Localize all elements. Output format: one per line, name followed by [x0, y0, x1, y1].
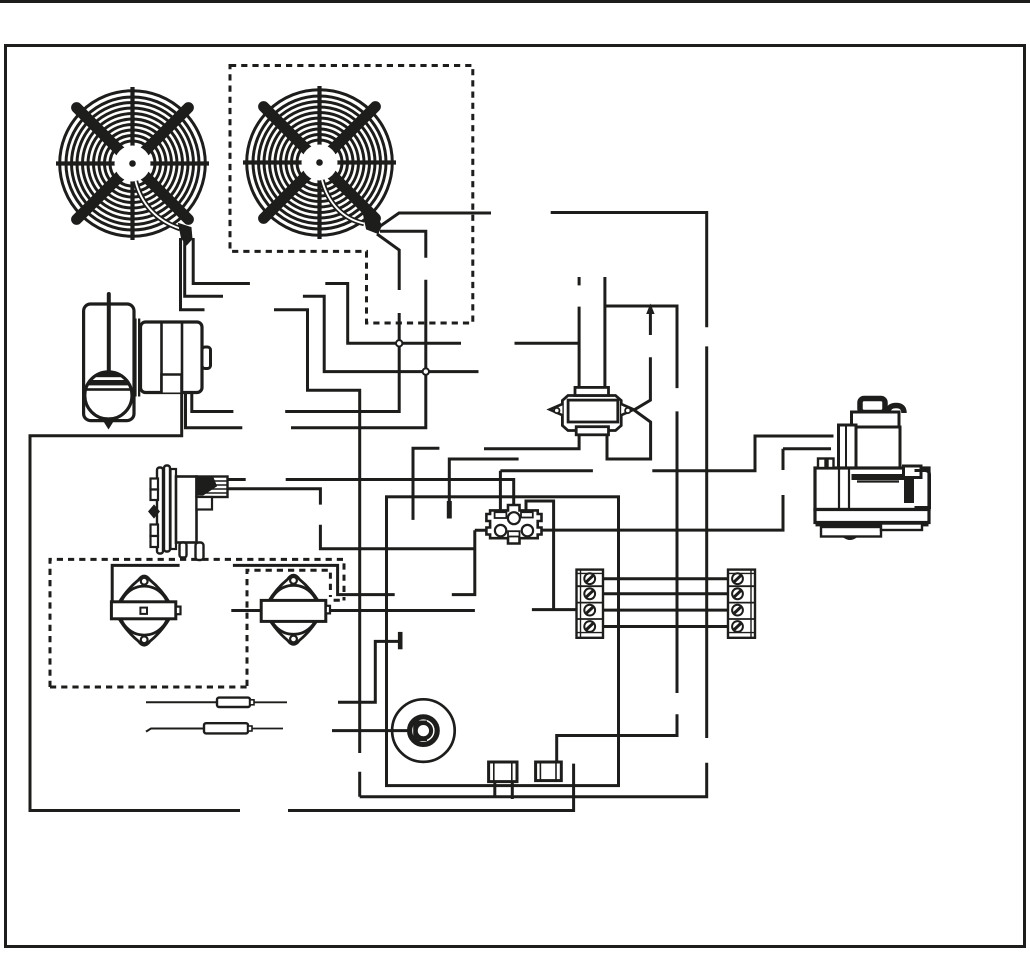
- plug connector (4-pin): [486, 505, 541, 544]
- top rule line: [0, 0, 1030, 3]
- igniter / gas orifice on board: [392, 699, 455, 762]
- board plug P1: [489, 762, 517, 782]
- wire plug connector top-right pin to terminal strip: [526, 501, 577, 610]
- terminal strip TB1 (left): [577, 570, 604, 638]
- wire compressor motor lead to left edge loop: [30, 393, 574, 811]
- fan relay / pressure switch: [149, 466, 228, 561]
- dashed enclosure around condenser fan 2: [230, 66, 473, 324]
- condenser fan motor FM1 (fan guard with blades): [56, 87, 209, 240]
- wire board plug stubs: [495, 782, 513, 799]
- wire igniter feed: [332, 729, 414, 732]
- junction node B: [423, 368, 429, 374]
- wire terminal strip row 3: [603, 609, 728, 612]
- junction node A: [396, 340, 402, 346]
- wire plug connector left pin riser: [112, 530, 490, 602]
- igniter probe: [146, 723, 283, 733]
- terminal strip TB2 (right): [728, 570, 755, 638]
- fan FM2 lead connector: [364, 215, 382, 234]
- wire fan1 lead 1 via left bus down to bottom: [181, 238, 360, 797]
- transformer T1: [550, 387, 634, 434]
- wire transformer primary leads: [557, 277, 677, 762]
- wire transformer right ear connection: [607, 357, 651, 459]
- condenser fan motor FM2 (fan guard with blades): [243, 86, 396, 239]
- wire stub to capacitor tick: [449, 459, 518, 502]
- dashed enclosure around limit switches: [50, 559, 344, 687]
- fan FM1 lead connector: [179, 224, 193, 246]
- wire relay lower contact to hopped corner: [206, 489, 475, 549]
- limit switch LS1: [111, 576, 180, 645]
- wire fan2 lower lead down to junction A level: [192, 234, 399, 412]
- wire terminal strip row 4: [603, 625, 728, 628]
- wire fan2 middle lead down to junction B and motor: [186, 231, 426, 427]
- wire fan2 upper lead to right vertical bus: [360, 213, 707, 797]
- flame sensor probe: [146, 698, 287, 707]
- gas valve: [815, 399, 930, 539]
- compressor / contactor assembly: [83, 294, 140, 430]
- wire plug connector top-left pin to gas valve: [500, 436, 833, 510]
- wire limit switch 2 right side: [326, 609, 475, 612]
- capacitor tick terminal: [447, 501, 452, 519]
- wire fan1 lead 2 to horizontal run y372: [185, 238, 479, 372]
- board plug P2: [536, 762, 562, 781]
- wire terminal strip row 1: [603, 577, 728, 580]
- condenser fan motor body: [141, 322, 211, 393]
- wire fan1 lead 3 to horizontal run y343 and transformer: [193, 238, 579, 343]
- board terminal post: [398, 632, 403, 649]
- wire terminal strip row 2: [603, 592, 728, 595]
- arrow head on direction marker: [646, 304, 654, 315]
- fan FM1 lead wire: [136, 181, 181, 229]
- wire flame sensor to board terminal: [338, 641, 399, 702]
- inner dashed enclosure around limit switch 2: [247, 570, 345, 686]
- wire gas valve second lead: [538, 449, 831, 530]
- wire transformer secondary bottom left: [413, 435, 579, 520]
- control board outline: [387, 497, 619, 786]
- wire arrow marker stem above transformer: [649, 312, 652, 335]
- limit switch LS2: [261, 575, 330, 644]
- wire relay contact stubs: [228, 480, 514, 506]
- wire limit switch 2 left side: [231, 609, 261, 612]
- fan FM2 lead wire: [322, 180, 364, 224]
